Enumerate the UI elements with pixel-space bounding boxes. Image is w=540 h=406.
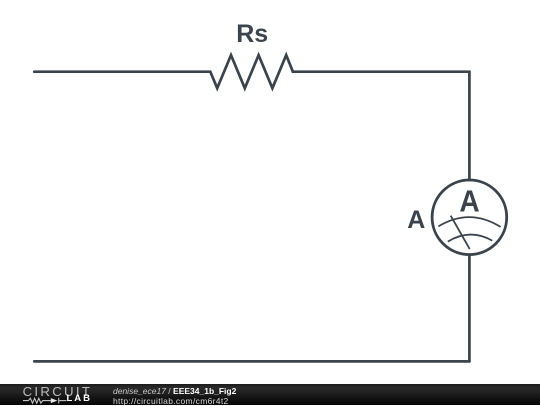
ammeter AM1 body bbox=[432, 180, 507, 255]
wire bottom bbox=[34, 360, 469, 363]
wire top-right bbox=[293, 70, 470, 73]
wire right upper bbox=[468, 72, 471, 180]
footer bar bbox=[0, 384, 540, 405]
ammeter AM1 scale arc inner bbox=[448, 235, 492, 242]
CircuitLab logo resistor-diode symbol bbox=[0, 384, 110, 405]
CircuitLab logo text CIRCUIT bbox=[23, 385, 93, 398]
ammeter AM1 scale arc outer bbox=[438, 217, 500, 227]
ammeter AM1 needle bbox=[451, 216, 470, 249]
title line bbox=[113, 387, 236, 397]
resistor Rs zigzag bbox=[210, 55, 293, 88]
CircuitLab logo text LAB bbox=[67, 394, 93, 403]
svg-text:Rs: Rs bbox=[236, 20, 268, 48]
url line bbox=[113, 397, 229, 406]
svg-text:A: A bbox=[459, 183, 479, 218]
wire right lower bbox=[468, 255, 471, 362]
wire top-left bbox=[34, 70, 210, 73]
svg-text:A: A bbox=[407, 206, 425, 234]
